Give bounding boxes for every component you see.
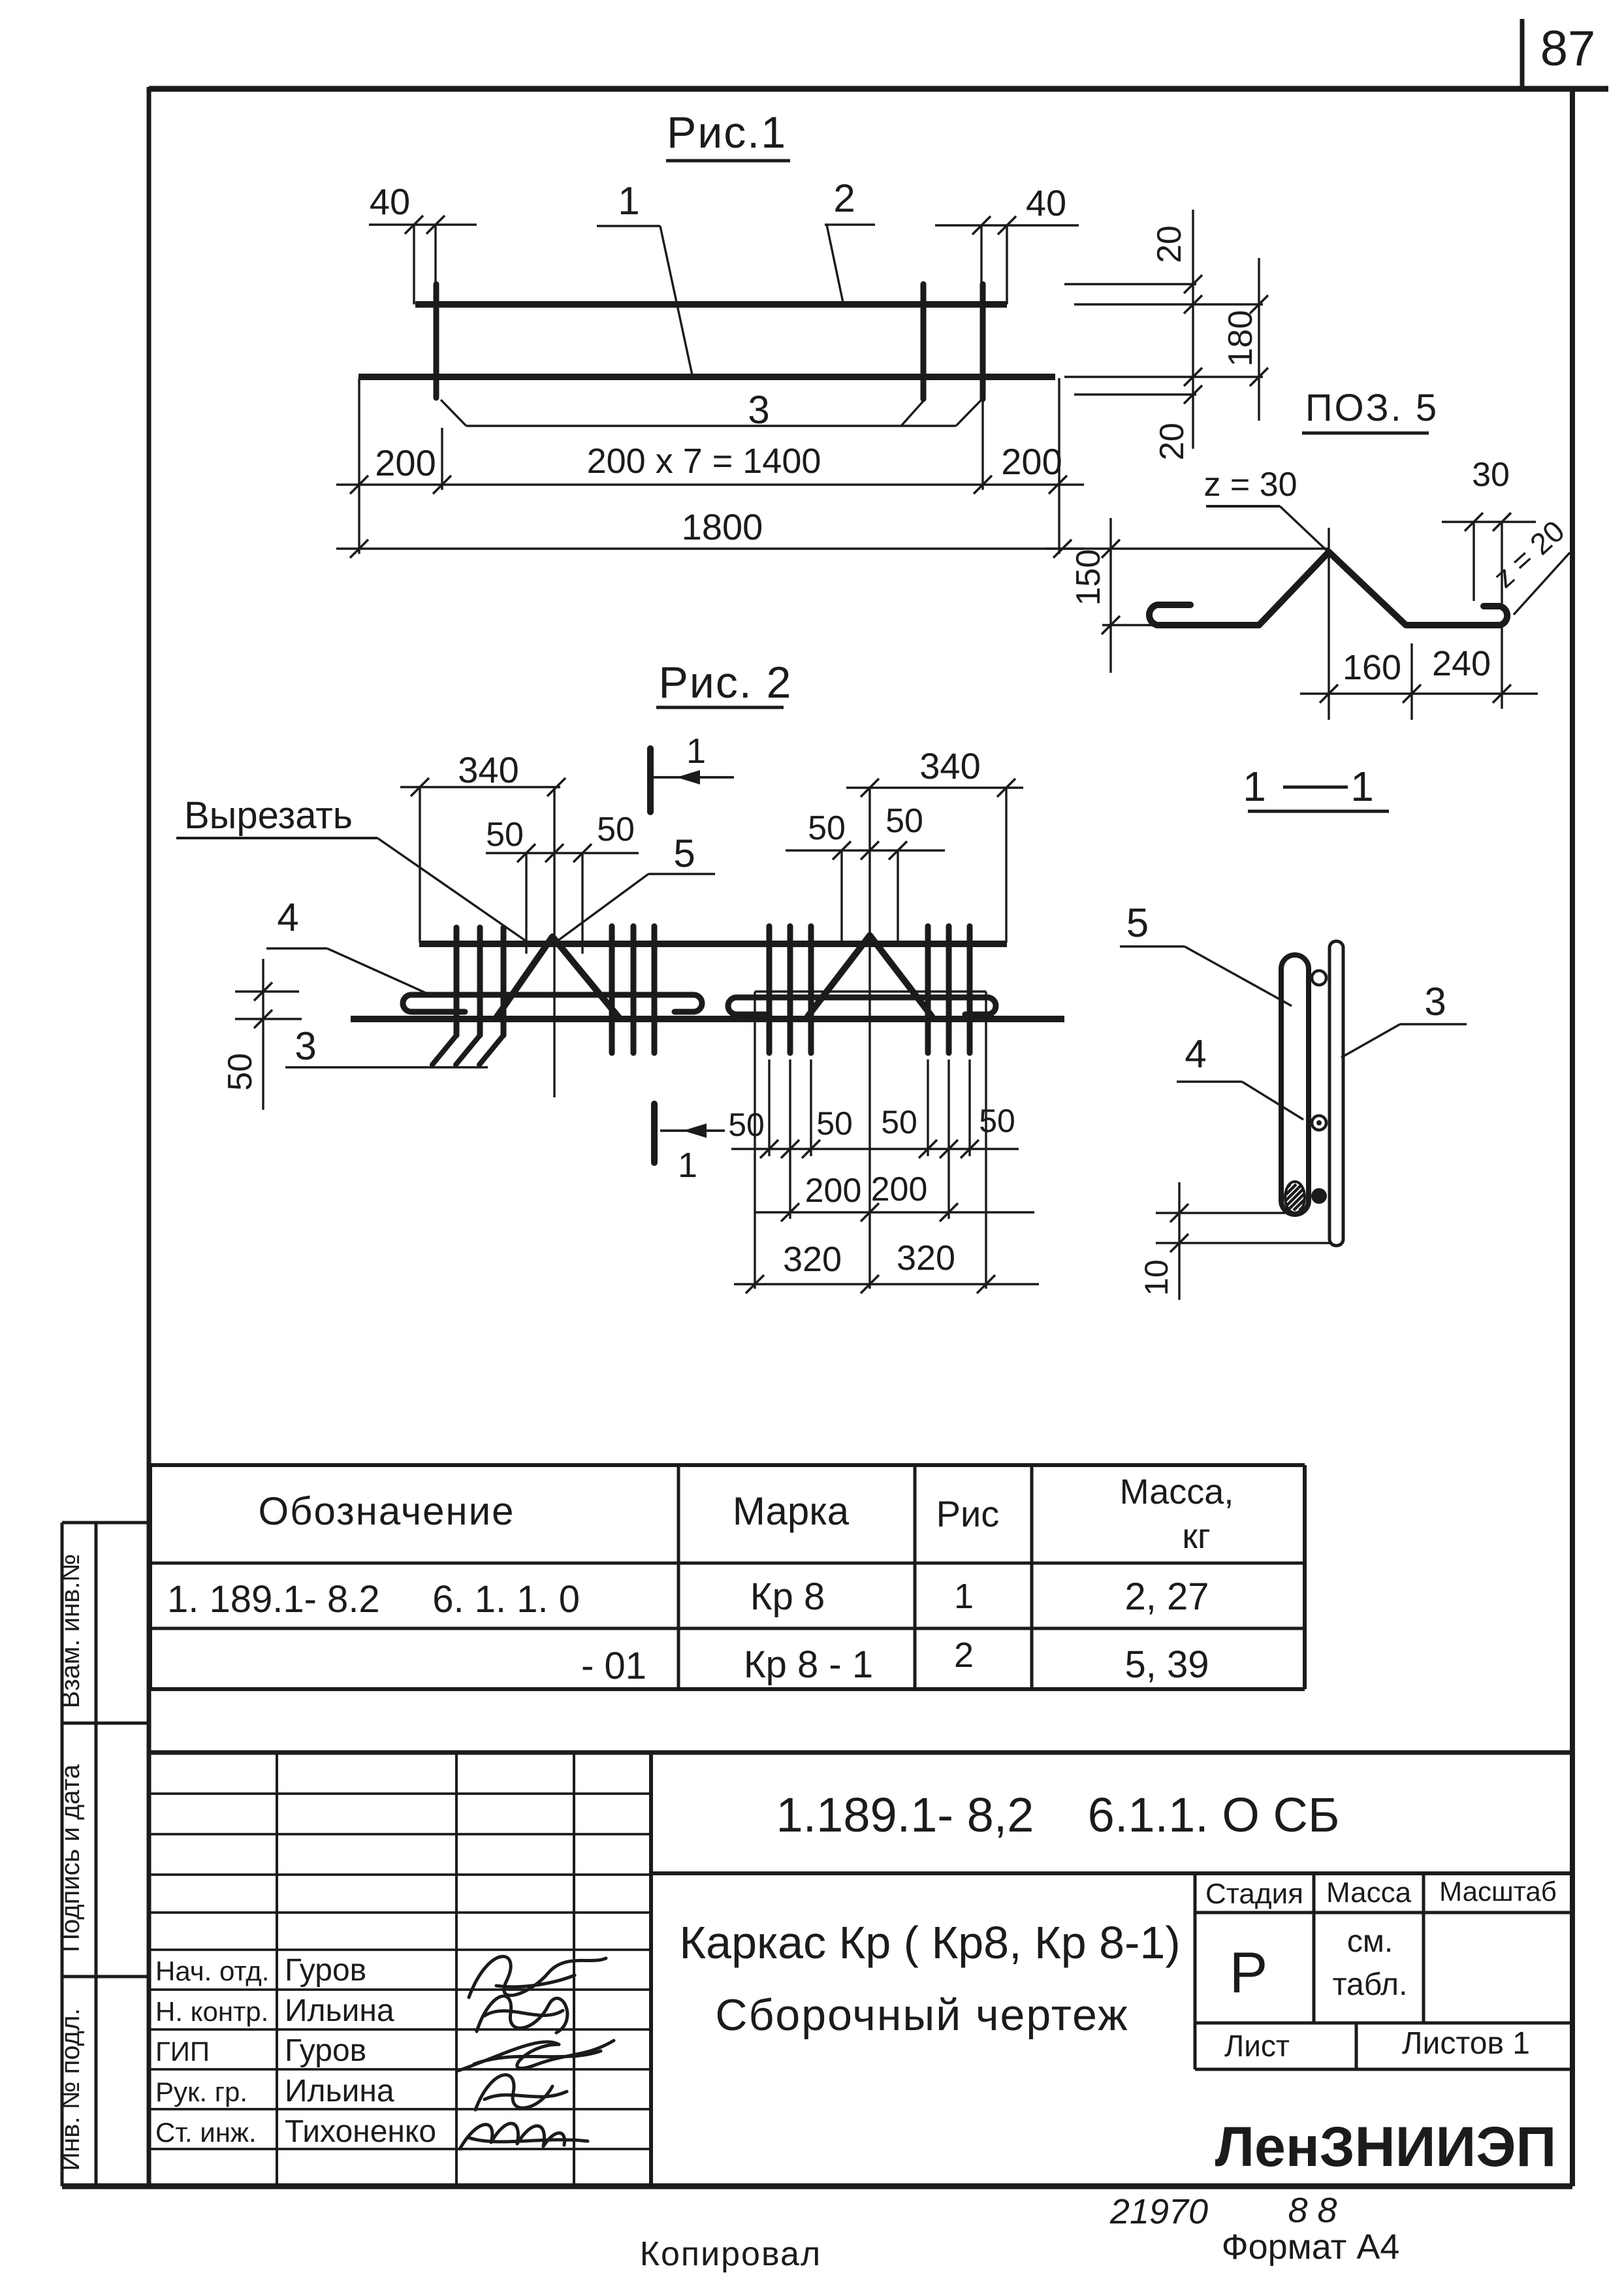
svg-text:1.189.1- 8,2 6.1.1. О СБ: 1.189.1- 8,2 6.1.1. О СБ <box>776 1788 1339 1842</box>
svg-text:50: 50 <box>881 1104 917 1140</box>
svg-text:10: 10 <box>1138 1259 1175 1296</box>
svg-text:50: 50 <box>808 809 846 847</box>
svg-text:8 8: 8 8 <box>1288 2191 1337 2230</box>
svg-text:Гуров: Гуров <box>285 2033 366 2068</box>
svg-text:2: 2 <box>833 176 855 220</box>
svg-text:Сборочный чертеж: Сборочный чертеж <box>715 1990 1128 2040</box>
svg-text:87: 87 <box>1540 21 1596 76</box>
svg-text:240: 240 <box>1432 644 1491 683</box>
svg-text:320: 320 <box>897 1238 955 1278</box>
svg-text:Рис. 2: Рис. 2 <box>659 658 793 707</box>
svg-text:20: 20 <box>1153 423 1191 460</box>
svg-text:3: 3 <box>1424 980 1446 1024</box>
svg-text:Копировал: Копировал <box>640 2235 822 2273</box>
svg-text:кг: кг <box>1182 1517 1210 1556</box>
svg-text:5, 39: 5, 39 <box>1125 1643 1209 1686</box>
svg-text:см.: см. <box>1347 1924 1393 1959</box>
svg-text:ПОЗ. 5: ПОЗ. 5 <box>1305 387 1439 429</box>
svg-text:Нач. отд.: Нач. отд. <box>155 1956 269 1986</box>
svg-text:Лист: Лист <box>1224 2029 1290 2063</box>
svg-text:4: 4 <box>277 896 298 939</box>
svg-text:Рис: Рис <box>936 1493 1000 1534</box>
svg-text:Подпись и дата: Подпись и дата <box>56 1764 85 1952</box>
svg-text:340: 340 <box>919 745 980 786</box>
svg-text:40: 40 <box>1026 182 1066 223</box>
svg-text:Рис.1: Рис.1 <box>667 108 787 157</box>
svg-text:Обозначение: Обозначение <box>258 1489 515 1533</box>
svg-text:5: 5 <box>1126 901 1149 946</box>
svg-text:3: 3 <box>295 1024 316 1068</box>
svg-text:Масштаб: Масштаб <box>1439 1876 1557 1907</box>
svg-text:160: 160 <box>1343 648 1401 687</box>
svg-text:Кр 8: Кр 8 <box>750 1575 825 1618</box>
svg-text:40: 40 <box>370 181 410 222</box>
svg-text:Ильина: Ильина <box>285 1994 394 2028</box>
svg-text:180: 180 <box>1222 310 1260 367</box>
svg-text:200: 200 <box>1001 441 1062 482</box>
svg-text:21970: 21970 <box>1109 2192 1208 2231</box>
svg-text:Марка: Марка <box>733 1489 850 1533</box>
svg-text:Формат А4: Формат А4 <box>1222 2227 1400 2267</box>
svg-text:200: 200 <box>871 1171 928 1208</box>
svg-text:Инв. № подл.: Инв. № подл. <box>56 2008 85 2171</box>
svg-text:200: 200 <box>375 442 436 483</box>
svg-text:- 01: - 01 <box>581 1645 646 1687</box>
svg-text:20: 20 <box>1151 225 1188 263</box>
svg-text:200 x 7 = 1400: 200 x 7 = 1400 <box>587 442 821 481</box>
svg-text:1. 189.1- 8.2 6. 1. 1. 0: 1. 189.1- 8.2 6. 1. 1. 0 <box>167 1578 580 1621</box>
svg-text:z = 30: z = 30 <box>1203 466 1297 504</box>
svg-text:Кр 8 - 1: Кр 8 - 1 <box>744 1643 873 1686</box>
svg-text:ГИП: ГИП <box>155 2036 210 2067</box>
svg-text:Масса: Масса <box>1326 1877 1412 1909</box>
svg-text:Ст. инж.: Ст. инж. <box>155 2117 257 2148</box>
svg-text:Р: Р <box>1230 1940 1268 2005</box>
svg-text:50: 50 <box>816 1105 853 1142</box>
svg-text:150: 150 <box>1070 549 1107 606</box>
svg-text:200: 200 <box>805 1172 862 1210</box>
svg-text:Тихоненко: Тихоненко <box>285 2114 436 2149</box>
svg-text:50: 50 <box>597 811 635 848</box>
svg-text:1: 1 <box>1243 763 1266 810</box>
svg-text:Масса,: Масса, <box>1120 1472 1234 1511</box>
svg-text:Взам. инв.№: Взам. инв.№ <box>56 1554 85 1709</box>
svg-text:4: 4 <box>1185 1032 1206 1076</box>
svg-text:50: 50 <box>979 1103 1015 1139</box>
svg-text:50: 50 <box>486 816 524 854</box>
svg-text:1800: 1800 <box>682 506 763 547</box>
svg-text:1: 1 <box>686 732 706 771</box>
svg-text:50: 50 <box>728 1107 765 1143</box>
svg-text:50: 50 <box>221 1053 259 1091</box>
svg-text:50: 50 <box>885 802 923 840</box>
svg-text:5: 5 <box>673 832 695 875</box>
svg-text:320: 320 <box>783 1240 842 1279</box>
svg-text:1: 1 <box>1350 763 1374 810</box>
svg-text:Н. контр.: Н. контр. <box>155 1996 268 2027</box>
svg-text:Гуров: Гуров <box>285 1953 366 1988</box>
svg-text:Вырезать: Вырезать <box>184 794 353 837</box>
svg-text:ЛенЗНИИЭП: ЛенЗНИИЭП <box>1215 2116 1557 2178</box>
svg-text:340: 340 <box>458 749 518 790</box>
svg-text:1: 1 <box>954 1577 974 1616</box>
svg-text:Каркас Кр ( Кр8, Кр 8-1): Каркас Кр ( Кр8, Кр 8-1) <box>679 1917 1180 1968</box>
svg-text:2: 2 <box>954 1636 974 1675</box>
svg-text:1: 1 <box>618 179 639 223</box>
svg-text:Рук. гр.: Рук. гр. <box>155 2076 247 2107</box>
svg-text:табл.: табл. <box>1333 1967 1408 2002</box>
svg-text:Ильина: Ильина <box>285 2074 394 2108</box>
svg-text:1: 1 <box>678 1146 697 1185</box>
svg-text:Листов 1: Листов 1 <box>1402 2026 1530 2061</box>
svg-text:2, 27: 2, 27 <box>1125 1575 1209 1618</box>
svg-text:30: 30 <box>1472 456 1510 494</box>
svg-text:Стадия: Стадия <box>1205 1878 1303 1910</box>
